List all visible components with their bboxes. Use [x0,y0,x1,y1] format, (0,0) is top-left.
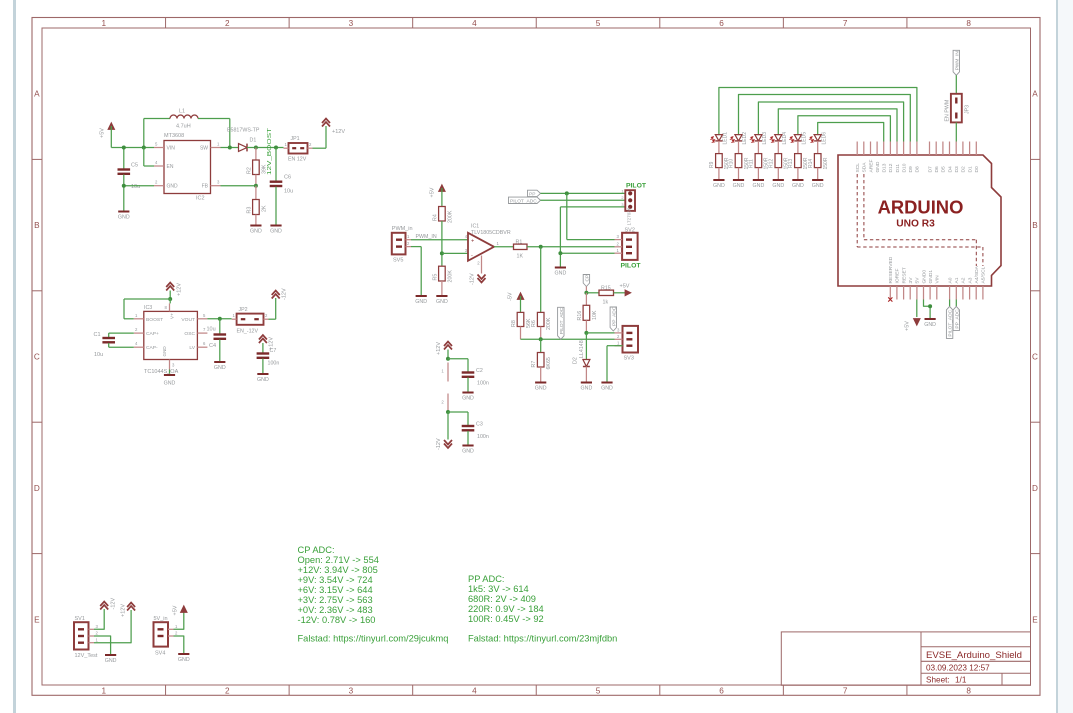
wire SV4 pin2 to ground [174,636,184,653]
power flag +5V arduino [905,319,921,332]
svg-text:GND: GND [772,183,784,189]
svg-text:LED4: LED4 [782,132,788,145]
ground under SV1 [105,655,117,664]
wire SV1 pin1 to +12V [94,610,131,643]
wire LED2 to D9 [739,95,911,142]
wire divider to op-amp - [442,252,468,254]
svg-text:GND: GND [713,183,725,189]
svg-text:EN PWM: EN PWM [945,100,951,122]
svg-text:GND: GND [462,396,474,402]
power flag +5V [100,123,115,148]
svg-text:C6: C6 [284,175,291,181]
ground under D2 [581,383,593,392]
ground under C3 [462,446,474,455]
svg-text:3: 3 [349,687,354,696]
svg-text:10u: 10u [131,184,140,190]
svg-text:1727036: 1727036 [627,207,632,225]
svg-text:1: 1 [617,340,620,345]
wire SV3 pin1 to ground [607,346,623,382]
IC U-IC2 MT3608 boost converter [154,133,221,202]
resistor R13 150R [788,141,809,179]
svg-text:PILOT_ADC: PILOT_ADC [559,307,565,334]
svg-text:200K: 200K [448,270,454,283]
svg-text:EN 12V: EN 12V [288,157,307,163]
svg-text:PP: PP [529,191,535,197]
svg-text:+12V: +12V [332,129,345,135]
svg-text:D3: D3 [954,166,960,173]
svg-text:R7: R7 [531,361,537,368]
wire CP to R15 [586,292,599,294]
svg-text:GND: GND [250,229,262,235]
pin D10 top [901,142,907,173]
svg-text:1: 1 [617,248,620,253]
svg-text:E: E [1032,615,1038,624]
LED LED6 [810,132,827,145]
pin 5V bottom [915,277,921,300]
svg-text:JP1: JP1 [291,136,300,142]
resistor R11 150R [749,141,770,179]
svg-text:A: A [34,90,40,99]
power flag +5V test [173,605,188,615]
ground under C6 [270,226,282,235]
op-amp supply pin 2 [441,394,448,411]
wire R16 to D2 [585,333,587,360]
svg-text:3: 3 [621,202,623,207]
svg-text:PILOT: PILOT [626,183,647,190]
svg-text:R12: R12 [768,159,774,168]
pin D2 top [961,142,967,173]
svg-text:PILOT_ADC: PILOT_ADC [510,198,537,204]
svg-text:+5V: +5V [173,605,179,615]
pin A2 bottom [961,277,967,299]
svg-text:3: 3 [617,328,620,333]
resistor R2 39K [247,148,268,186]
wire SV1 pin3 to -12V [94,609,104,629]
svg-text:6K65: 6K65 [546,357,552,369]
svg-text:SV3: SV3 [624,356,634,362]
svg-text:+5V: +5V [620,284,630,290]
svg-text:VOUT: VOUT [181,317,195,323]
IC IC3 TC1044S charge pump [134,303,208,374]
pin A3 bottom [967,277,973,299]
svg-text:03.09.2023 12:57: 03.09.2023 12:57 [926,663,990,672]
ground under SV5 [415,296,427,305]
svg-text:+: + [471,238,474,244]
svg-text:D5: D5 [941,166,947,173]
svg-text:GND: GND [162,346,167,357]
resistor R5 200K [433,266,454,295]
svg-text:IC1: IC1 [471,224,479,230]
svg-text:R14: R14 [808,159,814,168]
svg-text:GND: GND [164,381,176,387]
svg-text:D11: D11 [895,164,901,173]
svg-text:6: 6 [719,19,724,28]
svg-text:R6: R6 [531,320,537,327]
svg-text:D0: D0 [974,166,980,173]
note CP ADC table [298,545,379,625]
net flag PP [528,190,541,197]
svg-text:GND: GND [875,161,881,172]
junction R16/SV3 [584,331,588,335]
svg-text:100n: 100n [477,434,489,440]
svg-text:PWM_IN: PWM_IN [954,51,960,71]
svg-text:-12V: -12V [111,598,117,610]
ground under SV4 [178,654,190,663]
power flag +12V charge pump [166,283,182,300]
pin SCL top [855,142,861,173]
ground under C4 [214,362,226,371]
svg-text:D1: D1 [967,166,973,173]
wire SV1 pin2 to ground [94,636,111,654]
svg-text:10u: 10u [94,352,103,358]
wire SW node [221,147,239,149]
ground under R10 [733,180,745,189]
svg-text:+5V: +5V [905,321,911,331]
ground under R3 [250,226,262,235]
svg-text:C2: C2 [476,368,483,374]
svg-text:-12V: -12V [282,288,288,300]
svg-text:L1: L1 [179,109,185,115]
svg-text:IC3: IC3 [144,305,152,311]
svg-text:C1: C1 [94,332,101,338]
svg-text:2: 2 [477,261,480,266]
svg-text:A1: A1 [954,277,960,283]
svg-text:4.7uH: 4.7uH [176,124,191,130]
svg-text:+0V: 2.36V -> 483: +0V: 2.36V -> 483 [298,605,373,615]
svg-text:FB: FB [202,184,209,190]
svg-text:GND: GND [257,377,269,383]
no-connect mark RESERVED [888,297,892,301]
resistor R8 56K [511,312,532,339]
pin SDA top [862,142,868,173]
ground under R14 [812,180,824,189]
svg-text:R15: R15 [601,285,611,291]
power flag -5V [508,292,524,312]
svg-text:1: 1 [441,369,444,374]
connector SV1 12V_Test [74,616,99,659]
svg-text:Falstad: https://tinyurl.com/2: Falstad: https://tinyurl.com/23mjfdbn [468,634,617,644]
junction PP branch [565,191,569,195]
junction GND pins [928,304,932,308]
svg-text:D4: D4 [947,166,953,173]
power flag +12V test [121,603,136,618]
wire +12V to BOOST pin [124,299,170,319]
wire PP to pilot connector [541,192,626,194]
svg-text:RESET: RESET [901,267,907,283]
junction -12V/C3 [446,410,450,414]
junction CP/R15/R16 [584,291,588,295]
svg-text:4: 4 [472,687,477,696]
svg-text:Sheet:: Sheet: [926,675,950,684]
wire PP to SV2 pin3 [567,193,615,239]
svg-text:GND: GND [535,386,547,392]
junction SW/L1 [228,146,232,150]
svg-text:3: 3 [349,19,354,28]
svg-text:R10: R10 [729,159,735,168]
svg-text:1: 1 [407,234,410,239]
svg-text:ARDUINO: ARDUINO [878,197,964,218]
svg-text:1: 1 [96,637,99,642]
svg-text:100R: 0.45V -> 92: 100R: 0.45V -> 92 [468,614,544,624]
pin D12 top [888,142,894,173]
junction R6/R7 [539,337,543,341]
svg-text:GND1: GND1 [928,270,934,284]
power flag +5V right [620,284,632,296]
pin A4/SDA bottom [974,265,980,299]
wire JP3 to D3 [955,122,957,141]
svg-text:GND: GND [415,299,427,305]
svg-text:200K: 200K [448,210,454,223]
pin D8 top [915,142,921,173]
svg-text:R2: R2 [247,167,253,174]
svg-text:PP_ADC: PP_ADC [954,309,960,329]
svg-text:1: 1 [135,313,138,318]
svg-text:3: 3 [617,234,620,239]
resistor R9 150R [709,141,730,179]
resistor R7 6K65 [531,339,552,381]
svg-text:GND: GND [105,658,117,664]
junction GND/C5 [122,184,126,188]
svg-text:1: 1 [101,687,106,696]
power flag -12V test [100,598,116,610]
svg-text:GND: GND [555,271,567,277]
svg-text:+12V: 3.94V -> 805: +12V: 3.94V -> 805 [298,565,378,575]
svg-text:PILOT: PILOT [621,263,642,270]
svg-text:10u: 10u [284,189,293,195]
wire SV5 pin2 to ground [411,247,421,295]
svg-text:IOREF: IOREF [895,269,901,284]
svg-text:SV5: SV5 [393,258,403,264]
resistor R6 200K [531,312,552,339]
svg-text:R3: R3 [247,207,253,214]
svg-text:D12: D12 [888,163,894,172]
svg-text:8: 8 [165,305,168,310]
net flag PILOT_ADC arduino [946,306,953,338]
svg-text:200K: 200K [546,317,552,330]
svg-text:A3: A3 [967,277,973,283]
svg-text:2: 2 [407,241,410,246]
svg-text:JP3: JP3 [965,105,971,114]
resistor R16 10K [577,293,598,333]
pin D0 top [974,142,980,173]
pin A0 bottom [947,277,953,299]
pin D7 top [927,142,933,173]
wire pilot output [527,246,615,248]
svg-text:R16: R16 [577,311,583,321]
svg-text:2: 2 [309,142,312,147]
junction VOUT/C4 [218,317,222,321]
svg-text:12V_Test: 12V_Test [75,653,98,659]
svg-text:6: 6 [719,687,724,696]
op-amp IC1 TLV1805CDBVR [465,224,511,274]
svg-text:A2: A2 [961,277,967,283]
svg-text:LED1: LED1 [723,132,729,145]
pin VIN bottom [935,275,941,300]
svg-text:12V_BOOST: 12V_BOOST [267,127,273,175]
ground under R13 [792,180,804,189]
svg-text:7: 7 [843,687,848,696]
junction pilot gnd [558,251,562,255]
wire PILOT_ADC to pilot connector [541,199,626,201]
svg-text:PP_ADC: PP_ADC [611,306,617,326]
svg-text:TC1044S_OA: TC1044S_OA [144,369,179,375]
svg-text:GND: GND [270,229,282,235]
svg-text:PWM_in: PWM_in [392,226,413,232]
wire LED5 to D12 [798,116,891,142]
ground under C7 [257,374,269,383]
svg-text:GND: GND [436,299,448,305]
connector SV5 PWM_in [392,226,413,264]
svg-text:GND: GND [581,386,593,392]
ground under IC3 [164,370,176,387]
connector SV4 5V_in [154,616,179,657]
svg-text:LED5: LED5 [802,132,808,145]
svg-text:SV1: SV1 [75,616,85,622]
svg-text:+12V: +12V [121,604,127,617]
svg-text:SW: SW [200,146,208,152]
ground under R5 [436,296,448,305]
svg-text:+12V: +12V [436,342,442,355]
LED LED2 [731,132,748,145]
resistor R15 1k [599,285,614,305]
pin D5 top [941,142,947,173]
pin IOREF bottom [895,269,901,300]
svg-text:CAP+: CAP+ [146,331,159,337]
svg-text:4: 4 [472,19,477,28]
wire comparator divider net [521,338,615,340]
ground under R12 [772,180,784,189]
resistor R4 200K [433,207,454,267]
svg-text:B5817WS-TP: B5817WS-TP [227,128,260,134]
capacitor C4 [207,319,227,361]
svg-text:+6V: 3.15V -> 644: +6V: 3.15V -> 644 [298,585,373,595]
pin RESET bottom [901,267,907,299]
svg-text:SDA: SDA [862,162,868,173]
svg-text:5: 5 [596,687,601,696]
svg-text:JP2: JP2 [239,307,248,313]
svg-text:E: E [34,615,40,624]
svg-text:2: 2 [225,687,230,696]
jumper JP2 EN_-12V [232,307,269,335]
capacitor C5 [118,148,141,211]
svg-text:+5V: +5V [100,128,106,138]
LED LED3 [751,132,768,145]
diode D1 B5817WS-TP [227,128,260,152]
svg-text:1k5: 3V -> 614: 1k5: 3V -> 614 [468,584,529,594]
svg-text:GND: GND [812,183,824,189]
svg-text:LED6: LED6 [821,132,827,145]
svg-text:2K: 2K [262,205,268,212]
svg-text:C7: C7 [270,348,277,354]
svg-text:D10: D10 [901,163,907,172]
svg-text:R5: R5 [433,274,439,281]
svg-text:MT3608: MT3608 [164,133,184,139]
svg-text:5V: 5V [915,277,921,284]
ground under C5 [118,212,130,221]
LED LED1 [711,132,728,145]
svg-text:UNO R3: UNO R3 [896,219,935,230]
svg-text:GND: GND [601,386,613,392]
net flag CP [583,275,590,293]
svg-text:VIN: VIN [935,275,941,284]
resistor R10 150R [729,141,750,179]
svg-text:D: D [1032,484,1038,493]
svg-text:2: 2 [225,19,230,28]
svg-text:R9: R9 [709,161,715,168]
wire FB [221,185,256,187]
LED LED4 [771,132,788,145]
pin D6 top [934,142,940,173]
svg-text:2: 2 [175,631,178,636]
svg-text:TLV1805CDBVR: TLV1805CDBVR [471,230,511,236]
svg-text:B: B [34,221,40,230]
wire A1 to flag [955,300,957,307]
wire R15 to +5V [614,292,627,294]
junction FB/R2/R3 [254,184,258,188]
svg-text:2: 2 [441,400,444,405]
svg-text:1: 1 [217,142,220,147]
svg-text:R1: R1 [516,240,523,246]
svg-text:1: 1 [175,624,178,629]
svg-text:1: 1 [233,313,236,318]
svg-text:A5/SCL: A5/SCL [981,266,987,283]
svg-text:2: 2 [617,241,620,246]
capacitor C1 [94,332,134,358]
wire LED4 to D11 [778,109,897,142]
pin RESERVED bottom [888,256,894,299]
svg-text:100n: 100n [268,361,280,367]
svg-text:EN: EN [167,164,174,170]
svg-text:EVSE_Arduino_Shield: EVSE_Arduino_Shield [926,650,1022,661]
svg-text:D13: D13 [882,163,888,172]
svg-text:+5V: +5V [430,187,436,197]
svg-text:C: C [34,353,40,362]
svg-text:D8: D8 [915,166,921,173]
svg-text:4: 4 [135,341,138,346]
svg-text:LV: LV [189,345,195,351]
svg-text:EN_-12V: EN_-12V [237,329,259,335]
pin D4 top [947,142,953,173]
wire PWM_IN to JP3 [955,75,957,94]
svg-text:+3V: 2.75V -> 563: +3V: 2.75V -> 563 [298,595,373,605]
svg-text:5: 5 [155,142,158,147]
svg-text:SCL: SCL [855,163,861,173]
ground under R9 [713,180,725,189]
svg-text:D6: D6 [934,166,940,173]
wire LED6 to D13 [818,123,884,142]
svg-text:A0: A0 [947,277,953,283]
pin D9 top [908,142,914,173]
svg-text:GND: GND [167,184,179,190]
svg-text:680R: 2V -> 409: 680R: 2V -> 409 [468,594,536,604]
ground pilot [555,268,567,277]
svg-text:AREF: AREF [868,159,874,172]
wire A0 to flag [949,300,951,307]
ground under R11 [753,180,765,189]
pin A5/SCL bottom [981,266,987,299]
wire SV4 pin1 to +5V [174,609,184,629]
svg-text:D9: D9 [908,166,914,173]
svg-text:R11: R11 [749,159,755,168]
svg-text:-5V: -5V [508,292,514,301]
wire JP2 to -12V [269,298,276,319]
junction +5V/C5 [122,146,126,150]
capacitor C3 100n [462,422,489,445]
svg-text:-12V: -12V [470,273,476,285]
connector SV3 [615,326,639,362]
svg-text:OSC: OSC [184,331,195,337]
net flag PP_ADC arduino [953,306,960,330]
